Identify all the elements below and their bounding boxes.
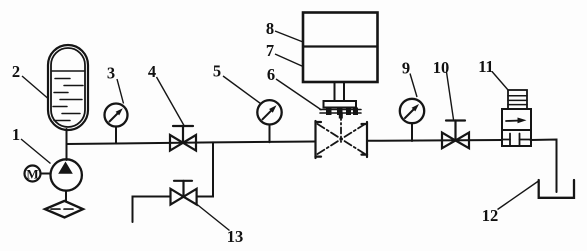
regulator 11 bbox=[502, 90, 531, 146]
svg-text:9: 9 bbox=[402, 59, 410, 78]
wire motor to pump bbox=[41, 173, 51, 175]
svg-text:4: 4 bbox=[148, 62, 156, 81]
svg-text:1: 1 bbox=[12, 125, 20, 144]
wire accumulator to pump bbox=[66, 129, 68, 160]
svg-text:10: 10 bbox=[433, 58, 450, 77]
transmitter box 7 8 bbox=[303, 13, 378, 83]
gauge 9 bbox=[400, 99, 424, 141]
svg-text:8: 8 bbox=[266, 19, 274, 38]
leader 13 bbox=[197, 204, 230, 231]
orifice centerline X bbox=[318, 124, 366, 154]
closed symbol in lower cell bbox=[502, 134, 531, 146]
accumulator 2 bbox=[48, 45, 88, 130]
wire main pipe left segment bbox=[67, 142, 316, 145]
leader 4 bbox=[157, 77, 185, 126]
leader 6 bbox=[276, 79, 322, 110]
svg-text:12: 12 bbox=[482, 206, 499, 225]
leader 7 bbox=[275, 54, 303, 67]
svg-text:3: 3 bbox=[107, 64, 115, 83]
valve 4 bbox=[170, 126, 196, 151]
svg-text:2: 2 bbox=[12, 62, 20, 81]
svg-text:11: 11 bbox=[478, 57, 494, 76]
leader 2 bbox=[22, 76, 48, 98]
svg-text:5: 5 bbox=[213, 62, 221, 81]
vertical centerline bbox=[340, 114, 342, 142]
filter (diamond) bbox=[45, 201, 83, 218]
orifice flow section left flange bbox=[316, 121, 322, 158]
tank 12 bbox=[539, 180, 574, 198]
leader 8 bbox=[275, 31, 303, 42]
leader 3 bbox=[117, 79, 124, 104]
gauge 3 bbox=[105, 104, 128, 144]
sensor flange assembly 6 bbox=[320, 82, 361, 119]
pump 1 bbox=[50, 159, 81, 190]
svg-text:13: 13 bbox=[227, 227, 244, 246]
wire pump to filter bbox=[65, 191, 67, 201]
leader 1 bbox=[21, 139, 51, 164]
valve 13 bbox=[171, 181, 197, 205]
wire regulator outlet to corner bbox=[531, 140, 557, 193]
svg-text:7: 7 bbox=[266, 41, 274, 60]
drain wire from valve 13 bbox=[133, 197, 171, 223]
arrow in upper cell bbox=[506, 120, 521, 123]
svg-text:6: 6 bbox=[267, 65, 275, 84]
leader 11 bbox=[492, 72, 509, 91]
valve 10 bbox=[442, 121, 469, 149]
leader lines bbox=[21, 31, 539, 231]
leader 12 bbox=[498, 181, 539, 210]
wire main pipe right segment bbox=[367, 139, 502, 142]
motor M bbox=[25, 166, 51, 182]
leader 5 bbox=[223, 76, 261, 104]
gauge 5 bbox=[257, 100, 281, 142]
svg-text:M: M bbox=[26, 167, 38, 182]
branch wire to valve 13 bbox=[197, 142, 213, 196]
orifice flow section right flange bbox=[362, 122, 368, 157]
leader 10 bbox=[447, 72, 454, 120]
leader 9 bbox=[410, 74, 417, 98]
